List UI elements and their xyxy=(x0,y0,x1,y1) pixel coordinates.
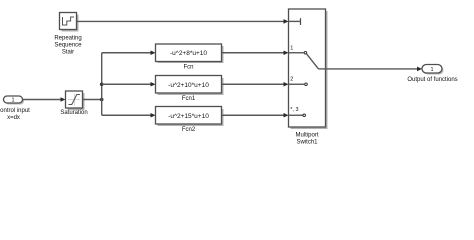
output port Out1 xyxy=(407,65,457,84)
svg-text:Switch1: Switch1 xyxy=(296,140,318,146)
svg-text:control input: control input xyxy=(0,108,30,114)
switch port 3 stub and contact xyxy=(289,107,306,117)
block Multiport Switch1 xyxy=(289,9,328,146)
wire input to Saturation xyxy=(23,97,66,102)
svg-text:Fcn2: Fcn2 xyxy=(182,127,196,133)
block Saturation xyxy=(60,91,87,116)
input port In1 control input xyxy=(0,96,30,121)
switch arm diagonal from port 1 to output xyxy=(307,54,326,69)
block Repeating Sequence Stair xyxy=(54,13,82,56)
wire branch vertical line xyxy=(101,53,103,116)
svg-text:1: 1 xyxy=(11,98,14,104)
switch port 1 stub and contact xyxy=(289,45,307,54)
svg-text:Saturation: Saturation xyxy=(60,110,87,116)
svg-text:2: 2 xyxy=(290,77,293,83)
svg-text:Sequence: Sequence xyxy=(54,42,82,48)
wire branch to Fcn xyxy=(102,50,156,55)
block Fcn1 xyxy=(156,76,224,103)
wire branch to Fcn2 xyxy=(102,113,156,118)
svg-text:Repeating: Repeating xyxy=(54,35,81,41)
svg-text:*, 3: *, 3 xyxy=(290,107,298,113)
svg-text:Multiport: Multiport xyxy=(295,133,318,139)
svg-text:Output of functions: Output of functions xyxy=(407,77,457,83)
switch port 2 stub and contact xyxy=(289,77,307,86)
block Fcn2 xyxy=(156,107,224,134)
wire Fcn to switch port 1 xyxy=(222,50,289,55)
wire Saturation to branch junction xyxy=(83,99,102,101)
svg-text:1: 1 xyxy=(430,67,433,73)
svg-text:-u^2+10*u+10: -u^2+10*u+10 xyxy=(168,82,209,89)
block Fcn xyxy=(156,44,224,71)
svg-text:Fcn1: Fcn1 xyxy=(182,96,196,102)
junction dot at Fcn1 branch xyxy=(100,82,104,86)
wire Fcn1 to switch port 2 xyxy=(222,82,289,87)
svg-text:-u^2+8*u+10: -u^2+8*u+10 xyxy=(170,50,207,57)
svg-text:Stair: Stair xyxy=(62,49,74,55)
wire stair to switch control port xyxy=(77,19,289,24)
svg-text:x=dx: x=dx xyxy=(7,115,20,121)
svg-text:1: 1 xyxy=(290,45,293,51)
svg-text:Fcn: Fcn xyxy=(183,65,193,71)
wire branch to Fcn1 xyxy=(102,82,156,87)
switch control port indicator xyxy=(289,18,301,25)
svg-text:-u^2+15*u+10: -u^2+15*u+10 xyxy=(168,113,209,120)
wire switch to output port xyxy=(326,67,423,72)
junction dot at branch xyxy=(100,98,104,102)
wire Fcn2 to switch port 3 xyxy=(222,113,289,118)
